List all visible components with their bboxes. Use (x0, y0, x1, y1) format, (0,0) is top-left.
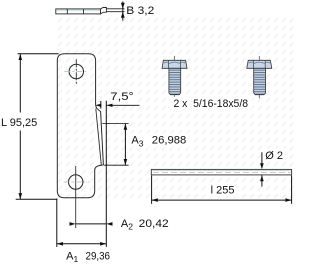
bolt 1 head face lines (168, 60, 170, 68)
bar (length l) (151, 169, 291, 175)
7.5deg reference tick (100, 101, 102, 109)
A3 top extension line (102, 123, 128, 125)
strip division 1 (66, 9, 68, 14)
bolt 2 head chamfer arcs (249, 62, 270, 63)
svg-text:l 255: l 255 (211, 185, 235, 197)
top hole vertical centerline (75, 59, 77, 83)
7.5deg leader line (107, 104, 140, 106)
right reference / extension line (shared by 7.5, A2, A1) (105, 101, 107, 247)
label box l 255 (206, 183, 237, 196)
l dim right extension line (291, 176, 293, 204)
bar top highlight (152, 170, 291, 172)
A1 arrow right (100, 242, 106, 246)
L dim line lower (19, 131, 21, 200)
svg-text:Ø 2: Ø 2 (265, 150, 283, 162)
B dim extension line bottom (107, 11, 125, 13)
A3 dim line (124, 124, 126, 166)
B arrow up (121, 12, 125, 18)
bolt 2 top centerline tick (258, 56, 260, 60)
svg-text:A220,42: A220,42 (121, 218, 169, 232)
A3 arrow up (124, 124, 128, 130)
top hole horizontal centerline (64, 71, 86, 73)
strip bent tab (side view) (101, 8, 107, 14)
l arrow right (285, 198, 291, 202)
l arrow left (152, 198, 158, 202)
A1 dim line (57, 243, 107, 245)
label box 2 x 5/16 (171, 97, 252, 110)
A2 arrow right (outside) (106, 222, 112, 226)
bottom hole horizontal centerline (64, 181, 89, 183)
bolt 2 head face lines (252, 60, 254, 68)
bolt 1 top centerline tick (174, 56, 176, 60)
watermark hatch region (56, 17, 294, 201)
tab fold line (96, 109, 102, 166)
strip division 2 (83, 9, 85, 14)
bolt 1 head chamfer arcs (164, 62, 185, 63)
diameter arrow up (260, 175, 264, 181)
l dim left extension line (151, 176, 153, 204)
L arrow down (19, 193, 23, 199)
7.5deg arrow at ref line (107, 104, 113, 107)
bolt 1 shank (threaded) (169, 68, 181, 94)
svg-text:B 3,2: B 3,2 (126, 5, 154, 17)
l dim line (152, 199, 292, 201)
bottom hole (69, 175, 83, 189)
diameter arrow down (260, 163, 264, 169)
label box A3 26,988 (129, 133, 190, 148)
diameter leader upper line (261, 152, 263, 164)
svg-text:7,5°: 7,5° (110, 91, 134, 103)
bottom hole vertical centerline / A2 extension (75, 166, 77, 228)
bolt 1 head (162, 60, 187, 68)
bolt 2 head (247, 60, 272, 68)
bolt 1 bottom centerline tick (174, 95, 176, 98)
svg-text:L 95,25: L 95,25 (1, 117, 37, 129)
A1 arrow left (57, 242, 63, 246)
L bottom extension line (16, 198, 58, 200)
A2 dim line (76, 223, 107, 225)
plate outline (57, 54, 103, 198)
B arrow down (121, 3, 125, 9)
A1 left extension line (56, 199, 58, 247)
A3 arrow down (124, 159, 128, 165)
7.5deg arrow at edge (95, 104, 101, 107)
L top extension line (18, 53, 59, 55)
side view strip (top) (56, 9, 101, 14)
B dim extension line top (107, 8, 125, 10)
B dim line (122, 2, 124, 21)
bolt 2 bottom centerline tick (258, 95, 260, 98)
svg-text:2 x 5/16-18x5/8: 2 x 5/16-18x5/8 (174, 98, 249, 110)
A2 arrow left (outside) (70, 222, 76, 226)
svg-text:A129,36: A129,36 (66, 251, 110, 265)
L arrow up (19, 54, 23, 60)
bolt 2 shank (threaded) (254, 68, 266, 94)
bar centerline (153, 171, 291, 173)
L dim line upper (19, 54, 21, 113)
label box 7,5 (108, 90, 137, 104)
A3 bottom extension line (104, 164, 129, 166)
diameter leader lower line (261, 175, 263, 186)
label box diameter (263, 148, 284, 161)
strip top highlight (57, 9, 100, 11)
top hole (69, 64, 83, 78)
